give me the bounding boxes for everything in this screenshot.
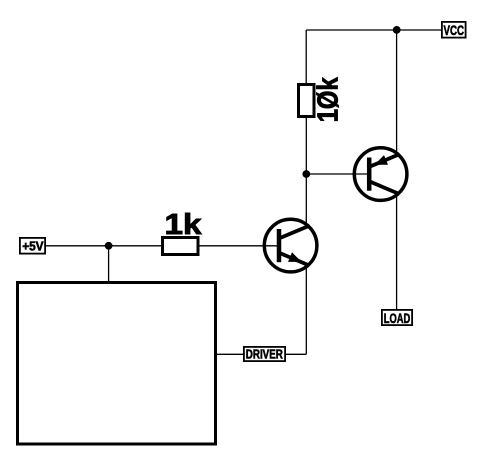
transistor Q2 PNP bbox=[354, 148, 407, 201]
svg-text:VCC: VCC bbox=[444, 22, 465, 38]
resistor R2 10k body bbox=[299, 85, 315, 117]
net label LOAD box bbox=[382, 310, 412, 326]
svg-text:1k: 1k bbox=[165, 209, 202, 241]
wire from VCC rail down to R2 top bbox=[305, 30, 307, 85]
node junction dot +5V branch bbox=[105, 242, 113, 250]
wire VCC rail horizontal bbox=[306, 29, 442, 31]
wire +5V to R1 bbox=[46, 245, 163, 247]
wire R2 bottom to Q1 collector bbox=[305, 118, 307, 224]
wire junction down to driver box bbox=[108, 246, 110, 283]
svg-text:1Øk: 1Øk bbox=[313, 77, 345, 123]
wire Q1 emitter down bbox=[305, 268, 307, 355]
driver IC U1 box bbox=[18, 283, 216, 445]
transistor Q1 NPN bbox=[264, 219, 317, 272]
node junction dot at R2/Q2 base bbox=[302, 170, 310, 178]
wire R1 to Q1 base bbox=[198, 245, 280, 247]
power label VCC box bbox=[442, 22, 466, 38]
wire from VCC rail down to Q2 emitter bbox=[396, 30, 398, 153]
svg-text:+5V: +5V bbox=[22, 239, 44, 253]
power label +5V box bbox=[20, 238, 45, 254]
wire Q2 collector down to LOAD bbox=[396, 192, 398, 311]
svg-text:DRIVER: DRIVER bbox=[246, 347, 283, 361]
svg-text:LOAD: LOAD bbox=[384, 310, 411, 326]
wire Q2 base lead bbox=[306, 173, 370, 175]
wire to DRIVER label bbox=[285, 353, 306, 355]
resistor R1 1k body bbox=[163, 238, 199, 255]
node VCC junction dot bbox=[393, 26, 401, 34]
net label DRIVER box bbox=[244, 347, 285, 361]
wire driver box to DRIVER label bbox=[217, 353, 244, 355]
